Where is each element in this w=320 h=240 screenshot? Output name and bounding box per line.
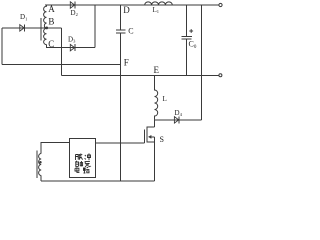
- transformer core: [40, 18, 42, 40]
- wire: bottom rail: [41, 180, 154, 182]
- svg-text:F: F: [124, 58, 129, 68]
- transformer secondary winding A-B-C: [44, 5, 47, 45]
- wire: left input: [2, 27, 62, 29]
- wire: gate wire: [96, 142, 145, 144]
- junction dot B tap: [45, 27, 48, 30]
- wire: E line: [62, 74, 219, 76]
- svg-text:B: B: [48, 17, 54, 27]
- wire: capacitor C branch vertical (top): [120, 5, 122, 30]
- capacitor C: [116, 27, 134, 36]
- inductor L (boost): [155, 75, 158, 120]
- svg-text:L: L: [163, 95, 167, 103]
- svg-text:D: D: [123, 5, 130, 15]
- svg-text:D1: D1: [20, 13, 27, 21]
- svg-text:A: A: [48, 4, 55, 14]
- capacitor C0 (electrolytic): [181, 5, 197, 75]
- svg-text:D4: D4: [175, 109, 183, 117]
- svg-text:E: E: [154, 65, 160, 75]
- wire: bridge output vertical: [94, 5, 96, 48]
- terminal (top right): [219, 3, 222, 6]
- pulse transformer winding: [39, 154, 42, 176]
- polarity dot: [39, 161, 42, 164]
- wire: winding bottom lead: [40, 176, 42, 182]
- wire: source vertical: [154, 137, 156, 181]
- text: 脉冲 (row1): [76, 153, 91, 160]
- block: pulse trigger circuit box: [69, 138, 95, 177]
- wire: F line: [2, 64, 121, 66]
- wire: D4 branch: [155, 119, 202, 121]
- svg-text:L1: L1: [153, 6, 160, 14]
- pulse transformer core: [36, 150, 38, 178]
- svg-text:C: C: [128, 27, 133, 36]
- diode D3: [68, 36, 76, 52]
- wire: left vertical: [1, 28, 3, 65]
- inductor L1: [145, 2, 173, 5]
- svg-text:S: S: [160, 135, 164, 144]
- svg-text:D2: D2: [71, 9, 78, 17]
- svg-text:C0: C0: [189, 40, 197, 51]
- wire: B return vertical: [61, 28, 63, 75]
- diode D2: [70, 2, 78, 18]
- wire: drain lead: [154, 120, 156, 127]
- wire: right vertical (rail to D4): [201, 5, 203, 120]
- terminal (right, E): [219, 74, 222, 77]
- wire: capacitor C branch vertical (down to bottom rail): [120, 34, 122, 181]
- svg-text:C: C: [48, 39, 54, 49]
- text: 触发 (row2): [75, 161, 91, 167]
- diode D4: [174, 109, 182, 124]
- wire: D3 branch: [47, 45, 95, 48]
- wire: box left lead: [41, 143, 69, 154]
- text: 电路 (row3): [75, 167, 89, 173]
- svg-text:D3: D3: [68, 36, 76, 44]
- transistor S (MOSFET): [144, 126, 164, 144]
- diode D1: [20, 13, 28, 31]
- wire: top rail: [45, 4, 219, 6]
